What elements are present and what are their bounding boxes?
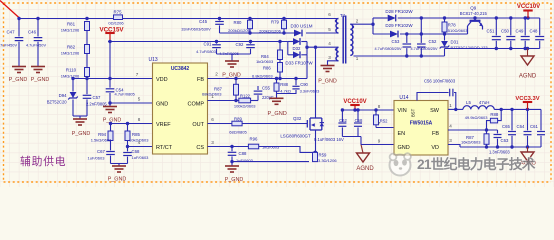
svg-text:C67: C67 — [97, 149, 105, 154]
ground AGND top right — [521, 56, 534, 65]
wire secondary return — [354, 55, 445, 57]
diode D30 US1M — [294, 30, 302, 37]
resistor R88 gate — [276, 79, 278, 84]
wire pin6 OUT — [208, 123, 232, 125]
wire CS to sense — [259, 147, 315, 153]
svg-text:4.7uF/450V: 4.7uF/450V — [26, 43, 47, 48]
wire VD pin — [448, 145, 460, 148]
wire — [86, 77, 88, 79]
svg-text:OUT: OUT — [192, 122, 204, 128]
svg-text:BC817-40,215: BC817-40,215 — [460, 11, 488, 16]
regulator U14 FW5015A — [394, 101, 448, 156]
transistor Q9 BC817-40,215 — [474, 18, 476, 21]
resistor R89 — [232, 121, 242, 126]
wire pin3 to ground — [328, 61, 339, 66]
resistor R87 — [235, 79, 237, 85]
resistor R78 — [444, 18, 446, 22]
capacitor C49 — [524, 18, 526, 35]
capacitor C90 — [295, 79, 297, 86]
ground AGND of U14 — [357, 153, 370, 162]
wire SW — [448, 108, 463, 110]
svg-text:C51: C51 — [487, 29, 495, 34]
svg-text:6: 6 — [211, 117, 214, 122]
svg-text:R80: R80 — [234, 20, 242, 25]
svg-text:VCC10V: VCC10V — [517, 4, 540, 10]
svg-text:C47: C47 — [6, 30, 15, 35]
resistor R79 — [282, 20, 287, 29]
zener diode D94 — [72, 79, 74, 92]
svg-text:16kΩ/0603: 16kΩ/0603 — [461, 139, 481, 144]
svg-text:D28 FR102W: D28 FR102W — [385, 9, 413, 14]
capacitor C51 — [495, 18, 497, 35]
wire cap ground rail U14 — [342, 136, 361, 138]
wire source — [315, 130, 317, 152]
svg-text:UC3842: UC3842 — [171, 66, 190, 72]
inductor L5 — [463, 106, 494, 110]
wire rectifier connector — [420, 18, 422, 34]
svg-text:U13: U13 — [149, 57, 158, 63]
svg-text:C57: C57 — [93, 95, 101, 100]
svg-text:33nF/0603/630V: 33nF/0603/630V — [181, 26, 211, 31]
svg-text:1MΩ/1206: 1MΩ/1206 — [61, 51, 80, 56]
wire — [251, 100, 258, 102]
svg-text:C62: C62 — [339, 118, 347, 123]
resistor R81 — [85, 22, 90, 31]
resistor R80 — [248, 20, 253, 29]
resistor R86 — [279, 60, 281, 63]
svg-text:4.7uF/0805: 4.7uF/0805 — [115, 91, 136, 96]
resistor R96 — [248, 144, 258, 149]
capacitor C50 — [510, 18, 512, 35]
svg-text:COMP: COMP — [188, 101, 205, 107]
wire pin4 RT/CT — [128, 146, 153, 148]
wire clamp rail — [220, 32, 295, 34]
svg-text:CS: CS — [196, 145, 204, 151]
svg-text:4.7uF/0805/25V: 4.7uF/0805/25V — [410, 47, 437, 51]
svg-text:R79: R79 — [271, 20, 279, 25]
svg-text:FB: FB — [197, 77, 204, 83]
svg-text:1uF/0603: 1uF/0603 — [132, 155, 150, 160]
svg-text:D33 FR107W: D33 FR107W — [285, 61, 313, 66]
ground P_GND of C46 — [31, 67, 45, 73]
svg-text:P_GND: P_GND — [108, 177, 127, 183]
ground P_GND of D94/C57 — [73, 119, 87, 125]
capacitor C62 — [341, 110, 343, 122]
ground P_GND of C54 — [103, 107, 117, 113]
svg-text:3.3Ω/1206: 3.3Ω/1206 — [318, 158, 337, 163]
svg-text:1MΩ/1206: 1MΩ/1206 — [61, 28, 80, 33]
svg-text:C58: C58 — [355, 118, 363, 123]
wire FB U14 — [448, 129, 498, 131]
svg-text:9: 9 — [378, 139, 381, 144]
svg-text:R75: R75 — [113, 10, 122, 15]
svg-text:6.8kΩ/0603: 6.8kΩ/0603 — [252, 74, 273, 79]
svg-text:BZT52C20: BZT52C20 — [47, 100, 68, 105]
diode D33 FR107W — [288, 54, 293, 56]
svg-text:SW: SW — [430, 108, 440, 114]
svg-text:R81: R81 — [67, 22, 76, 27]
svg-text:C68: C68 — [132, 149, 140, 154]
svg-text:R122: R122 — [240, 93, 251, 98]
svg-text:4.7uF/0803: 4.7uF/0803 — [196, 49, 216, 54]
capacitor C57 — [86, 79, 88, 95]
svg-text:1: 1 — [356, 56, 359, 61]
svg-text:5: 5 — [138, 97, 141, 102]
svg-text:5: 5 — [328, 27, 331, 32]
svg-text:8: 8 — [378, 104, 381, 109]
diode D29 FR102W — [373, 33, 390, 35]
svg-text:P_GND: P_GND — [225, 177, 244, 183]
transistor Q32 MOSFET LSG80R600GT — [307, 118, 322, 130]
wire pin2 FB — [208, 78, 308, 80]
capacitor C45 — [219, 19, 221, 21]
svg-text:C46: C46 — [28, 30, 37, 35]
svg-text:C53: C53 — [392, 39, 400, 44]
svg-text:200kΩ/1206: 200kΩ/1206 — [228, 28, 250, 33]
svg-text:GND: GND — [156, 101, 168, 107]
capacitor C58 — [357, 110, 359, 122]
svg-text:R86: R86 — [263, 65, 271, 70]
svg-text:D30 US1M: D30 US1M — [290, 24, 312, 29]
svg-text:1: 1 — [449, 103, 452, 108]
svg-text:3.3nF/0603: 3.3nF/0603 — [300, 89, 320, 94]
svg-text:68Ω/0805: 68Ω/0805 — [229, 130, 247, 135]
svg-text:C65: C65 — [502, 124, 510, 129]
capacitor C64 — [527, 109, 529, 130]
resistor R59 — [313, 152, 318, 161]
ground P_GND of C67/C68 — [112, 166, 126, 172]
svg-text:C45: C45 — [199, 19, 208, 24]
svg-text:AGND: AGND — [519, 74, 537, 80]
resistor R82 — [85, 45, 90, 54]
svg-text:LSG80R600GT: LSG80R600GT — [280, 134, 311, 139]
svg-text:U14: U14 — [399, 95, 408, 101]
svg-text:P_GND: P_GND — [31, 77, 50, 83]
svg-text:6: 6 — [328, 12, 331, 17]
wire pin4 — [307, 46, 339, 48]
svg-text:3: 3 — [328, 55, 331, 60]
svg-text:1kΩ/0603: 1kΩ/0603 — [256, 59, 274, 64]
svg-text:0.1uF/0603 16V: 0.1uF/0603 16V — [314, 137, 344, 142]
wire ground rail right top — [445, 48, 540, 50]
svg-text:C52: C52 — [429, 39, 437, 44]
svg-text:1MΩ/1206: 1MΩ/1206 — [61, 74, 80, 79]
capacitor C68 — [127, 147, 129, 152]
svg-text:1uF/0603: 1uF/0603 — [88, 156, 106, 161]
svg-text:GND: GND — [398, 145, 410, 151]
transformer core — [342, 16, 344, 64]
svg-text:49.9kΩ/0603: 49.9kΩ/0603 — [465, 115, 489, 120]
wire — [86, 31, 88, 45]
svg-text:R94: R94 — [98, 132, 106, 137]
svg-text:R88: R88 — [280, 82, 288, 87]
svg-text:4: 4 — [449, 124, 452, 129]
resistor R94 — [110, 124, 112, 132]
wire AGND stem — [527, 49, 529, 57]
svg-text:AGND: AGND — [356, 166, 374, 172]
svg-text:BST: BST — [411, 108, 416, 117]
svg-text:R89: R89 — [234, 116, 242, 121]
svg-text:2: 2 — [215, 72, 218, 77]
wire to ground — [73, 115, 87, 117]
svg-text:P_GND: P_GND — [268, 111, 287, 117]
svg-text:Q9: Q9 — [470, 6, 477, 11]
wire pin1 COMP — [208, 100, 239, 102]
svg-text:Q32: Q32 — [293, 116, 302, 121]
svg-text:21世纪电力电子技术: 21世纪电力电子技术 — [417, 156, 536, 172]
svg-text:RT/CT: RT/CT — [156, 145, 173, 151]
svg-text:P_GND: P_GND — [103, 118, 122, 124]
capacitor C53 — [406, 34, 408, 43]
wire sense return — [232, 161, 309, 163]
svg-text:4.7uF/450V: 4.7uF/450V — [0, 43, 17, 48]
svg-text:R88: R88 — [490, 112, 498, 117]
capacitor C67 — [110, 141, 112, 151]
svg-text:R82: R82 — [67, 45, 76, 50]
capacitor C47 — [18, 19, 20, 37]
svg-text:4.7kΩ: 4.7kΩ — [280, 89, 291, 94]
svg-text:C50: C50 — [501, 29, 509, 34]
wire GND pin — [361, 144, 394, 146]
svg-text:4.7uF/0805/25V: 4.7uF/0805/25V — [374, 47, 401, 51]
svg-text:C61: C61 — [530, 124, 538, 129]
capacitor C61 — [540, 109, 542, 130]
svg-text:C92: C92 — [236, 42, 244, 47]
red corner diagonal — [0, 1, 20, 19]
svg-text:1: 1 — [211, 94, 214, 99]
capacitor C46 — [37, 19, 39, 37]
capacitor C56 bootstrap — [417, 93, 449, 101]
sheet border (orange dashed) — [4, 3, 552, 182]
svg-text:2: 2 — [356, 18, 359, 23]
ground P_GND of C47 — [12, 67, 26, 73]
svg-text:VD: VD — [431, 145, 439, 151]
svg-text:C49: C49 — [516, 29, 524, 34]
svg-text:EN: EN — [398, 131, 406, 137]
wire 3.3V rail — [494, 108, 541, 110]
wire gate drive — [242, 123, 307, 125]
svg-text:VDD: VDD — [156, 77, 168, 83]
svg-text:C48: C48 — [530, 29, 538, 34]
svg-text:R87: R87 — [214, 86, 222, 91]
svg-text:FW5015A: FW5015A — [410, 121, 433, 127]
ground P_GND of C91/C92 — [225, 61, 239, 67]
wire VDD drop — [109, 42, 111, 79]
svg-text:FB: FB — [432, 131, 439, 137]
resistor R85 — [127, 124, 129, 132]
svg-text:1.3nF/0603: 1.3nF/0603 — [489, 150, 510, 155]
wire VIN — [342, 109, 394, 111]
svg-text:VIN: VIN — [398, 108, 407, 114]
svg-text:100kΩ/0603: 100kΩ/0603 — [234, 103, 256, 108]
svg-text:510Ω/0603: 510Ω/0603 — [448, 28, 468, 33]
svg-text:8: 8 — [138, 117, 141, 122]
wire ground rail — [111, 163, 128, 165]
svg-text:VREF: VREF — [156, 122, 171, 128]
wire pin7 VDD — [73, 78, 153, 80]
svg-text:C88: C88 — [239, 151, 247, 156]
svg-text:P_GND: P_GND — [9, 77, 28, 83]
svg-text:1.5kΩ/0603: 1.5kΩ/0603 — [91, 138, 112, 143]
svg-text:P_GND: P_GND — [222, 72, 241, 78]
resistor R87 feedback bottom 16k — [486, 130, 488, 134]
wire pin5 GND — [110, 102, 153, 104]
svg-text:3: 3 — [211, 140, 214, 145]
svg-text:R59: R59 — [319, 152, 327, 157]
svg-text:C63: C63 — [501, 138, 509, 143]
svg-text:P_GND: P_GND — [72, 131, 91, 137]
wire cap ground rail — [217, 53, 251, 55]
capacitor C92 — [250, 42, 252, 44]
capacitor C52 — [420, 34, 422, 43]
svg-text:0Ω/1206: 0Ω/1206 — [108, 21, 124, 26]
wire HV bus (top wire A) — [20, 18, 339, 20]
resistor R84 — [279, 42, 281, 51]
svg-text:P_GND: P_GND — [318, 79, 337, 85]
resistor R110 — [85, 68, 90, 77]
zener diode D31 — [444, 34, 446, 41]
svg-text:3: 3 — [449, 138, 452, 143]
capacitor C63 — [497, 130, 499, 133]
svg-text:47uH: 47uH — [479, 100, 490, 105]
wire feedback ground rail — [460, 146, 541, 148]
svg-text:D29 FR102W: D29 FR102W — [385, 23, 413, 28]
diode D28 FR102W — [373, 17, 388, 19]
resistor R88 feedback top 49.9k — [498, 109, 502, 120]
svg-text:R52: R52 — [380, 119, 388, 124]
svg-text:R96: R96 — [250, 136, 258, 141]
svg-text:C55: C55 — [262, 86, 270, 91]
op-amp U13 UC3842 PWM controller — [153, 63, 208, 154]
capacitor C55 — [257, 95, 259, 100]
svg-text:R85: R85 — [132, 132, 140, 137]
svg-text:辅助供电: 辅助供电 — [20, 154, 66, 168]
svg-text:C64: C64 — [517, 124, 525, 129]
wire — [86, 54, 88, 68]
svg-text:C90: C90 — [300, 82, 308, 87]
ground P_GND of gate net — [270, 98, 284, 104]
capacitor C48 — [539, 18, 541, 35]
svg-text:7: 7 — [378, 121, 381, 126]
svg-text:C91: C91 — [204, 41, 212, 46]
ground P_GND of T1 pin3 — [321, 66, 335, 72]
resistor R122 — [239, 98, 251, 103]
wire AGND stem 2 — [527, 147, 529, 152]
wire EN — [376, 127, 394, 129]
watermark logo panda face — [390, 153, 411, 175]
capacitor C54 — [109, 79, 111, 88]
resistor R75 (0 ohm) — [114, 15, 123, 20]
resistor R52 — [375, 110, 377, 115]
capacitor C91 — [216, 42, 218, 44]
svg-text:4: 4 — [138, 140, 141, 145]
ground P_GND of C88 — [225, 166, 239, 172]
svg-text:R110: R110 — [66, 68, 77, 73]
svg-text:C56 100nF/0603: C56 100nF/0603 — [424, 79, 456, 84]
wire pin8 VREF — [111, 123, 153, 125]
diode D32 — [287, 42, 289, 55]
wire VCC15V rail (wire B) — [108, 41, 288, 43]
secondary coil — [350, 24, 353, 55]
svg-text:7: 7 — [136, 72, 139, 77]
svg-text:D94: D94 — [59, 93, 67, 98]
wire pin3 CS — [208, 146, 249, 148]
ground AGND bottom right — [521, 152, 534, 161]
capacitor C65 — [511, 109, 513, 130]
svg-text:D32: D32 — [293, 46, 301, 51]
wire VCC10V rail — [421, 17, 539, 19]
svg-text:4: 4 — [328, 41, 331, 46]
wire pin2 secondary — [350, 23, 373, 25]
wire drain to transformer pin4 — [315, 47, 317, 118]
svg-text:L5: L5 — [466, 100, 471, 105]
capacitor C88 — [231, 147, 233, 152]
